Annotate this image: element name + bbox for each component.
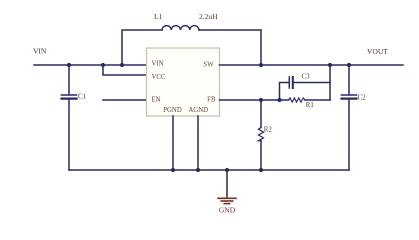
svg-text:VIN: VIN xyxy=(33,47,47,56)
capacitor C2 xyxy=(342,63,367,170)
capacitor C3 xyxy=(280,73,331,100)
wire PGND xyxy=(172,116,174,170)
IC U1 xyxy=(147,48,220,116)
wire SW / VOUT rail xyxy=(220,64,404,66)
svg-text:L1: L1 xyxy=(154,12,163,21)
junction PGND-rail xyxy=(171,168,175,172)
wire VCC branch xyxy=(103,65,147,75)
junction L1 tap xyxy=(120,63,124,67)
junction R2 tap xyxy=(259,98,263,102)
resistor R2 xyxy=(258,100,272,172)
junction C3 tap xyxy=(277,98,281,102)
svg-text:C2: C2 xyxy=(358,94,367,102)
junction SW tap xyxy=(259,63,263,67)
svg-text:VOUT: VOUT xyxy=(367,47,388,56)
wire FB network to VOUT xyxy=(329,65,331,100)
wire VIN rail xyxy=(34,64,147,66)
junction GND tap xyxy=(225,168,229,172)
wire inductor loop right vertical xyxy=(199,30,261,65)
svg-text:GND: GND xyxy=(219,206,236,215)
svg-text:FB: FB xyxy=(207,96,216,103)
wire inductor loop left vertical xyxy=(122,30,162,65)
svg-text:C1: C1 xyxy=(78,92,87,100)
junction VCC tap xyxy=(101,63,105,67)
svg-text:PGND: PGND xyxy=(163,107,182,114)
svg-text:C3: C3 xyxy=(302,73,311,81)
resistor R1 xyxy=(289,98,331,109)
svg-text:VIN: VIN xyxy=(152,60,164,67)
svg-text:R1: R1 xyxy=(306,102,314,109)
svg-text:SW: SW xyxy=(203,61,214,68)
svg-text:AGND: AGND xyxy=(188,107,208,114)
wire AGND xyxy=(197,116,199,170)
svg-text:EN: EN xyxy=(152,96,161,103)
junction AGND-rail xyxy=(196,168,200,172)
ground GND xyxy=(218,170,236,215)
wire EN stub xyxy=(103,99,147,101)
wire ground rail xyxy=(69,169,349,171)
capacitor C1 xyxy=(62,65,87,170)
inductor L1 xyxy=(162,26,199,30)
svg-text:R2: R2 xyxy=(264,127,273,134)
junction C1 tap xyxy=(67,63,71,67)
svg-text:VCC: VCC xyxy=(152,74,166,81)
junction top of divider xyxy=(328,63,332,67)
svg-text:2.2uH: 2.2uH xyxy=(199,12,218,21)
wire FB xyxy=(220,99,289,101)
